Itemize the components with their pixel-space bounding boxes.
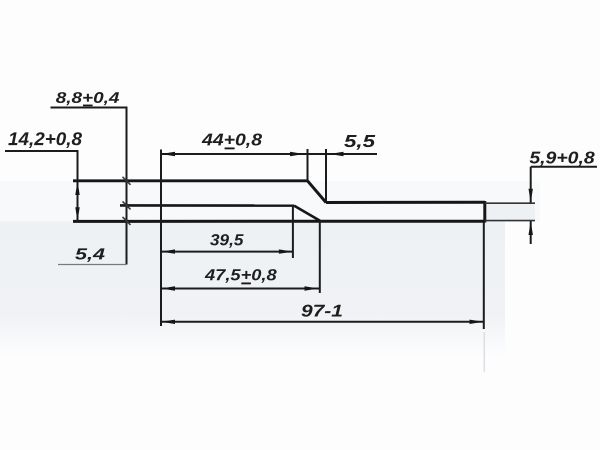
wire bottom xyxy=(73,220,485,223)
arrow 44 left xyxy=(161,152,175,156)
arrow 47,5 right xyxy=(305,286,319,290)
tolerance bar 44 xyxy=(225,147,235,149)
svg-text:44+0,8: 44+0,8 xyxy=(201,130,263,149)
extension x293 xyxy=(292,206,294,258)
tick middle xyxy=(123,201,131,209)
scan tint band xyxy=(0,222,505,357)
arrow 44 right xyxy=(290,152,304,156)
arrow 97-1 right xyxy=(470,320,484,324)
arrow 39,5 left xyxy=(161,249,175,253)
extension 14,2 leader xyxy=(77,150,79,221)
arrow 39,5 right xyxy=(279,249,293,253)
ext right thin bottom xyxy=(485,220,535,222)
wire left edge / main extension xyxy=(160,150,162,327)
wire internal chamfer xyxy=(294,206,320,221)
dim line 47,5 xyxy=(161,288,320,290)
arrow 47,5 left xyxy=(161,286,175,290)
svg-text:5,9+0,8: 5,9+0,8 xyxy=(529,148,595,167)
shelf 8,8 xyxy=(51,107,128,109)
extension x307 xyxy=(307,149,309,181)
leader 5,9 upper xyxy=(530,167,532,203)
leader 8,8 vertical xyxy=(126,108,128,265)
svg-text:5,4: 5,4 xyxy=(75,246,105,263)
wire right edge xyxy=(483,201,486,223)
extension x320 xyxy=(319,221,321,293)
tolerance bar 47,5 xyxy=(241,282,251,284)
leader 5,9 lower xyxy=(530,221,532,244)
arrow 5,5 xyxy=(330,152,344,156)
arrow 5,9 up xyxy=(529,221,533,235)
wire top outline xyxy=(73,179,308,182)
arrow 14,2 down xyxy=(75,207,79,221)
dim line 44 / 5,5 xyxy=(161,153,377,155)
dim line 39,5 xyxy=(161,251,293,253)
svg-text:47,5+0,8: 47,5+0,8 xyxy=(204,267,277,284)
tick bottom xyxy=(123,217,131,225)
arrow 14,2 up xyxy=(75,181,79,195)
tick 8,8 top xyxy=(123,177,131,185)
arrow 97-1 left xyxy=(161,320,175,324)
wire internal xyxy=(120,204,294,207)
faint upper tint xyxy=(0,181,540,222)
faint scan streak xyxy=(483,332,485,372)
ext right thin top xyxy=(485,202,535,204)
svg-text:39,5: 39,5 xyxy=(210,232,245,249)
wire thin top xyxy=(326,201,485,204)
dim line 97-1 xyxy=(161,321,484,323)
extension x326 xyxy=(325,149,327,203)
svg-text:5,5: 5,5 xyxy=(344,131,375,151)
svg-text:14,2+0,8: 14,2+0,8 xyxy=(8,128,83,149)
svg-text:8,8+0,4: 8,8+0,4 xyxy=(56,90,120,107)
tint strip right of part xyxy=(486,204,535,221)
arrow 5,9 down xyxy=(529,189,533,203)
extension x484 xyxy=(483,222,485,329)
wire top chamfer xyxy=(308,181,327,203)
svg-text:97-1: 97-1 xyxy=(301,302,343,321)
shelf 5,9 xyxy=(531,166,597,168)
shelf 14,2 xyxy=(5,150,79,152)
tolerance bar 8,8 xyxy=(83,104,93,106)
shelf 5,4 xyxy=(58,264,127,266)
